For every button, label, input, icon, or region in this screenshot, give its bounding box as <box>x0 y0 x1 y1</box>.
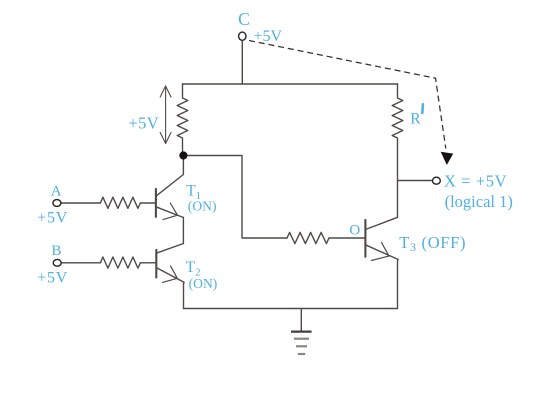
wire resistor to T1 base <box>140 202 156 204</box>
svg-text:R: R <box>410 110 421 127</box>
resistor R' <box>392 84 403 181</box>
svg-text:O: O <box>349 223 360 239</box>
wire T3 emitter to ground rail <box>397 259 400 308</box>
dashed arrow from +5V at C to X <box>249 41 453 166</box>
resistor (left pull-up, +5V across) <box>177 84 188 156</box>
wire X output <box>398 180 433 182</box>
transistor T1 <box>156 157 184 220</box>
svg-text:B: B <box>51 243 61 259</box>
wire T1 emitter to T2 collector <box>182 218 184 244</box>
wire A to input resistor <box>61 202 101 204</box>
measurement arrow +5V across pull-up <box>160 86 171 144</box>
terminal A <box>53 200 61 207</box>
wire B to input resistor <box>61 262 100 264</box>
svg-text:(logical 1): (logical 1) <box>445 192 513 211</box>
node junction dot <box>179 151 187 159</box>
resistor (input A) <box>100 197 140 208</box>
svg-text:C: C <box>238 9 250 29</box>
ground <box>291 309 312 355</box>
svg-text:(ON): (ON) <box>188 199 217 215</box>
wire C stem <box>241 40 243 84</box>
svg-text:X = +5V: X = +5V <box>444 171 507 190</box>
svg-text:A: A <box>51 184 62 200</box>
wire R3 to T3 base <box>329 237 365 239</box>
svg-text:+5V: +5V <box>37 269 68 286</box>
svg-text:+5V: +5V <box>128 113 159 132</box>
wire top supply rail <box>183 83 398 85</box>
transistor T3 <box>365 181 398 261</box>
svg-text:T3 (OFF): T3 (OFF) <box>399 233 466 254</box>
terminal X <box>433 177 441 184</box>
svg-text:+5V: +5V <box>37 210 68 227</box>
transistor T2 <box>156 244 184 283</box>
terminal B <box>53 259 61 266</box>
wire resistor to T2 base <box>140 262 156 264</box>
wire T2 emitter to ground rail <box>183 282 186 308</box>
terminal C <box>239 32 246 40</box>
resistor (T3 base) <box>287 232 329 243</box>
wire ground rail <box>184 308 398 310</box>
resistor (input B) <box>100 257 140 268</box>
svg-text:(ON): (ON) <box>189 276 218 292</box>
wire node to T3 base resistor <box>183 156 287 239</box>
svg-text:+5V: +5V <box>254 28 283 45</box>
